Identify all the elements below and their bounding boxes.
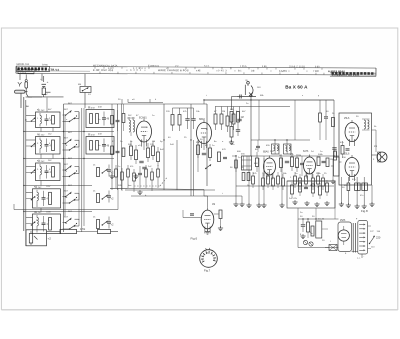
svg-text:LS: LS [374, 145, 377, 148]
svg-text:220: 220 [376, 236, 381, 240]
svg-text:a.c.: a.c. [357, 258, 361, 260]
svg-text:1M: 1M [241, 117, 244, 119]
svg-text:MECHANICAL DATA: MECHANICAL DATA [93, 64, 118, 67]
svg-text:ECH81: ECH81 [139, 117, 147, 120]
svg-text:MODEL 514: MODEL 514 [16, 64, 29, 66]
svg-text:BAND: BAND [42, 63, 49, 66]
svg-text:40+40: 40+40 [318, 219, 325, 221]
svg-text:7 800: 7 800 [313, 70, 320, 73]
svg-text:1 25 A: 1 25 A [240, 65, 247, 68]
svg-text:Fig.7: Fig.7 [204, 269, 211, 273]
svg-text:S 4 1: S 4 1 [204, 66, 210, 68]
svg-text:WAVE CHANGE 6 POS: WAVE CHANGE 6 POS [158, 69, 189, 72]
svg-text:+2: +2 [48, 237, 52, 241]
svg-text:470k: 470k [80, 228, 86, 231]
svg-text:2n2 47k: 2n2 47k [289, 198, 298, 200]
svg-text:a 45: a 45 [196, 70, 201, 72]
svg-text:Fig.8: Fig.8 [361, 209, 368, 213]
svg-text:CG7: CG7 [46, 186, 51, 188]
svg-text:+: + [47, 80, 49, 84]
svg-text:4 66: 4 66 [262, 66, 267, 68]
svg-text:25A6 Z 25Z6: 25A6 Z 25Z6 [289, 65, 306, 68]
svg-text:5 2 8 A 4: 5 2 8 A 4 [133, 67, 146, 70]
svg-text:1M: 1M [212, 204, 215, 206]
svg-text:1M: 1M [330, 159, 333, 161]
svg-text:6BA6: 6BA6 [199, 118, 206, 121]
svg-text:2M: 2M [298, 155, 301, 157]
svg-text:E.455 Kc/s: E.455 Kc/s [148, 66, 160, 68]
svg-text:25Z6: 25Z6 [340, 220, 346, 222]
svg-text:1M: 1M [152, 141, 155, 143]
svg-text:25L6: 25L6 [344, 117, 350, 120]
svg-text:Ba X 60 A: Ba X 60 A [285, 85, 308, 90]
svg-text:6 60: 6 60 [315, 66, 320, 68]
svg-text:6AT6: 6AT6 [303, 150, 309, 153]
svg-text:CG8: CG8 [46, 212, 51, 214]
svg-text:1M: 1M [222, 111, 225, 113]
svg-text:6 6AT6: 6 6AT6 [279, 70, 287, 73]
svg-text:0 45 3: 0 45 3 [218, 69, 227, 72]
svg-text:Fig.6: Fig.6 [191, 237, 198, 241]
svg-text:25L6: 25L6 [344, 153, 350, 156]
svg-text:6BA6: 6BA6 [263, 151, 269, 154]
